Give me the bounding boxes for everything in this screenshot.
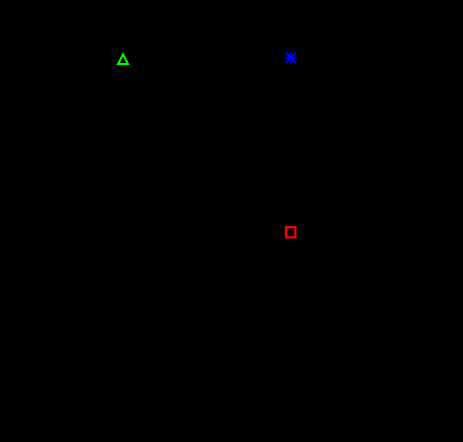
marker: red square point [286,227,295,237]
marker: blue asterisk point [285,52,296,63]
marker: green triangle point [118,54,128,64]
